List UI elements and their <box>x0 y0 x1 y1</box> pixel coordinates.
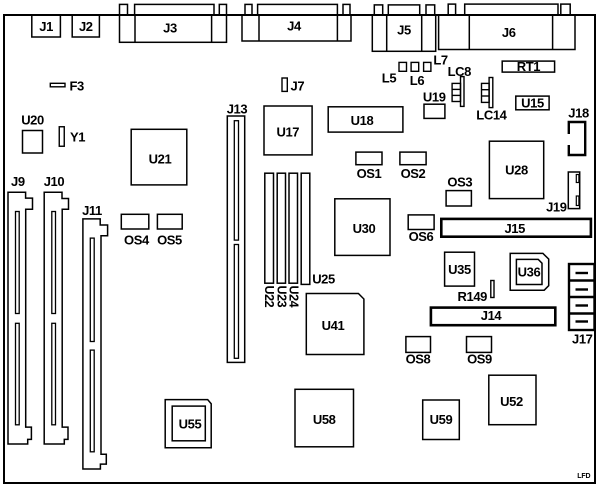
slot bar U22 <box>265 173 274 283</box>
slot bar U23 <box>277 173 285 283</box>
svg-text:J6: J6 <box>502 25 516 40</box>
inductor L6 <box>411 62 419 71</box>
IC U17 <box>264 106 312 155</box>
svg-text:U22: U22 <box>262 286 276 308</box>
slot J10 <box>44 192 68 444</box>
svg-text:J2: J2 <box>79 19 93 34</box>
IC U36 <box>510 253 549 290</box>
oscillator OS3 <box>446 191 471 206</box>
svg-text:RT1: RT1 <box>517 59 541 74</box>
thermistor RT1 <box>502 61 554 72</box>
svg-text:U19: U19 <box>423 90 446 105</box>
connector J3 <box>120 4 227 42</box>
connector J4 <box>242 4 351 41</box>
oscillator OS9 <box>467 337 492 353</box>
fuse F3 <box>50 83 65 87</box>
svg-text:U24: U24 <box>287 286 301 308</box>
svg-text:U41: U41 <box>322 318 345 333</box>
IC U59 <box>423 400 460 440</box>
svg-text:U36: U36 <box>518 265 541 280</box>
IC U21 <box>131 129 187 185</box>
IC U19 <box>424 104 445 118</box>
IC U58 <box>295 389 354 447</box>
connector J17 <box>569 264 595 330</box>
svg-text:OS2: OS2 <box>401 166 426 181</box>
svg-text:U30: U30 <box>353 221 376 236</box>
svg-text:OS6: OS6 <box>409 229 434 244</box>
svg-text:U15: U15 <box>521 96 544 111</box>
svg-text:U58: U58 <box>313 412 336 427</box>
svg-text:J9: J9 <box>11 174 25 189</box>
svg-text:OS1: OS1 <box>357 166 382 181</box>
svg-text:OS9: OS9 <box>467 352 492 367</box>
svg-text:J3: J3 <box>163 21 177 36</box>
svg-text:J4: J4 <box>287 19 302 34</box>
svg-text:L7: L7 <box>433 53 448 68</box>
svg-text:L5: L5 <box>382 71 397 86</box>
svg-text:U59: U59 <box>430 412 453 427</box>
connector J15 <box>441 219 591 237</box>
filter LC14 <box>482 78 493 108</box>
svg-text:LC8: LC8 <box>448 64 472 79</box>
svg-text:U18: U18 <box>351 113 374 128</box>
svg-text:U25: U25 <box>312 272 335 287</box>
slot J13 <box>227 116 244 362</box>
crystal Y1 <box>59 127 64 147</box>
svg-text:OS3: OS3 <box>447 175 472 190</box>
svg-text:Y1: Y1 <box>70 130 85 145</box>
svg-text:J18: J18 <box>568 106 589 121</box>
resistor R149 <box>491 281 494 298</box>
svg-text:R149: R149 <box>458 289 488 304</box>
oscillator OS1 <box>356 152 382 165</box>
IC U41 <box>306 294 364 355</box>
svg-text:U21: U21 <box>149 152 172 167</box>
svg-text:U35: U35 <box>448 262 471 277</box>
slot bar U25 <box>301 173 310 284</box>
svg-text:OS4: OS4 <box>124 233 150 248</box>
svg-text:J17: J17 <box>572 332 593 347</box>
svg-text:OS8: OS8 <box>406 352 431 367</box>
IC U35 <box>445 252 475 286</box>
connector J18 <box>569 122 585 155</box>
oscillator OS4 <box>121 214 149 229</box>
svg-text:J19: J19 <box>546 200 567 215</box>
oscillator OS8 <box>406 337 431 353</box>
svg-text:LC14: LC14 <box>476 108 507 123</box>
connector J1 <box>32 15 61 37</box>
inductor L5 <box>399 62 407 71</box>
inductor L7 <box>424 62 431 71</box>
slot J11 <box>83 219 108 469</box>
svg-text:J10: J10 <box>44 174 65 189</box>
oscillator OS6 <box>408 215 434 230</box>
svg-text:OS5: OS5 <box>157 233 182 248</box>
svg-text:J1: J1 <box>39 19 53 34</box>
svg-text:U23: U23 <box>274 286 288 308</box>
connector J5 <box>372 5 435 51</box>
svg-text:U20: U20 <box>21 113 44 128</box>
svg-text:F3: F3 <box>70 79 85 94</box>
IC U20 <box>23 131 43 154</box>
IC U15 <box>516 96 549 110</box>
svg-text:J15: J15 <box>504 221 525 236</box>
svg-text:U17: U17 <box>276 125 299 140</box>
svg-text:U55: U55 <box>179 417 202 432</box>
IC U28 <box>489 141 543 198</box>
svg-text:J11: J11 <box>82 203 102 218</box>
IC U55 <box>165 400 211 448</box>
svg-text:LFD: LFD <box>577 473 590 480</box>
oscillator OS5 <box>157 214 182 229</box>
svg-text:J5: J5 <box>397 23 411 38</box>
connector J2 <box>72 15 99 37</box>
svg-text:U28: U28 <box>505 163 528 178</box>
svg-text:J13: J13 <box>227 102 248 117</box>
slot J9 <box>8 192 33 444</box>
connector J14 <box>431 308 555 326</box>
svg-text:J14: J14 <box>481 308 503 323</box>
slot bar U24 <box>289 173 298 283</box>
svg-text:L6: L6 <box>410 73 425 88</box>
IC U30 <box>335 199 390 256</box>
oscillator OS2 <box>400 152 426 165</box>
connector J7 <box>282 78 287 91</box>
filter LC8 <box>452 77 464 107</box>
IC U52 <box>489 375 536 425</box>
connector J19 <box>568 172 579 209</box>
svg-text:U52: U52 <box>500 394 523 409</box>
svg-text:J7: J7 <box>291 79 305 94</box>
IC U18 <box>328 107 403 132</box>
connector J6 <box>439 4 575 49</box>
